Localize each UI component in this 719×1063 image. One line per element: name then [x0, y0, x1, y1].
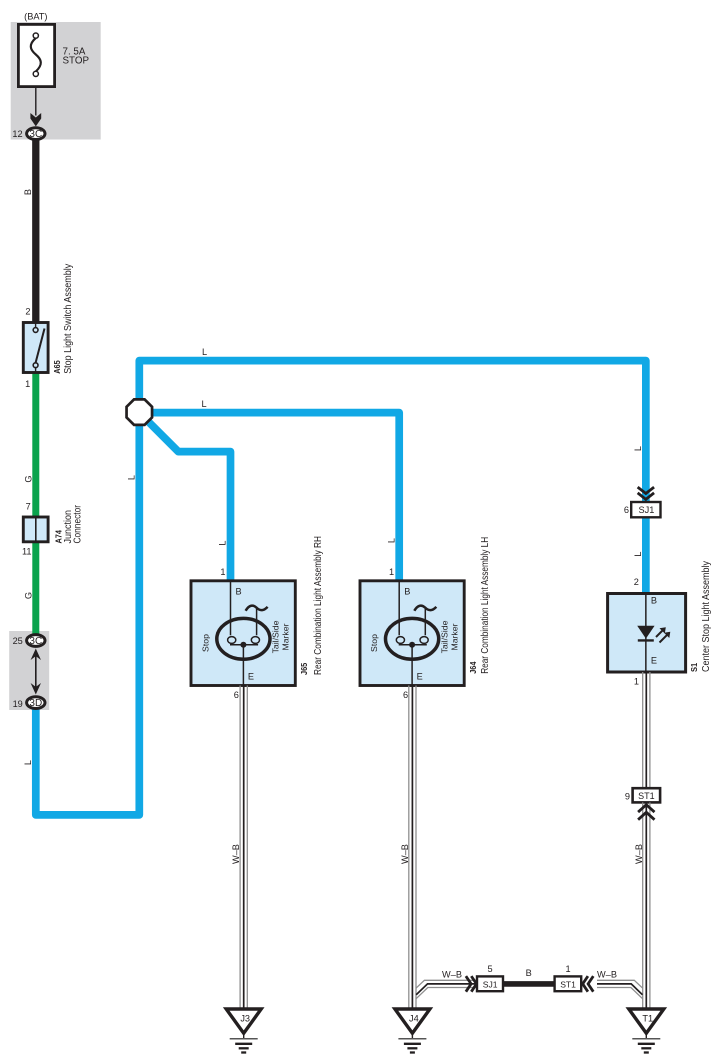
- svg-text:25: 25: [13, 636, 23, 646]
- svg-text:1: 1: [389, 567, 394, 577]
- svg-text:7: 7: [26, 502, 31, 512]
- svg-text:E: E: [651, 656, 657, 666]
- svg-text:B: B: [23, 189, 33, 195]
- svg-text:W–B: W–B: [597, 970, 617, 980]
- svg-text:Stop Light Switch Assembly: Stop Light Switch Assembly: [63, 264, 74, 374]
- svg-text:B: B: [526, 968, 532, 978]
- svg-text:Marker: Marker: [449, 623, 459, 650]
- svg-text:Rear Combination Light Assembl: Rear Combination Light Assembly LH: [480, 537, 491, 674]
- svg-text:19: 19: [13, 699, 23, 709]
- svg-text:ST1: ST1: [560, 979, 576, 989]
- svg-text:W–B: W–B: [400, 844, 410, 864]
- svg-text:E: E: [248, 672, 254, 682]
- svg-text:A74: A74: [54, 530, 64, 544]
- svg-text:T1: T1: [642, 1014, 653, 1024]
- svg-text:L: L: [23, 760, 33, 765]
- svg-text:B: B: [404, 587, 410, 597]
- svg-text:S1: S1: [689, 662, 699, 672]
- svg-text:J3: J3: [240, 1014, 250, 1024]
- svg-text:(BAT): (BAT): [24, 11, 47, 21]
- svg-text:1: 1: [220, 567, 225, 577]
- svg-text:1: 1: [634, 677, 639, 687]
- svg-text:Tail/Side: Tail/Side: [439, 620, 449, 653]
- svg-text:6: 6: [403, 690, 408, 700]
- svg-text:L: L: [633, 446, 643, 451]
- svg-text:B: B: [651, 596, 657, 606]
- svg-text:2: 2: [25, 307, 30, 317]
- svg-text:A65: A65: [52, 360, 62, 374]
- svg-text:L: L: [386, 538, 396, 543]
- svg-text:SJ1: SJ1: [638, 505, 654, 515]
- svg-text:STOP: STOP: [63, 56, 90, 67]
- svg-text:Center Stop Light Assembly: Center Stop Light Assembly: [701, 561, 712, 672]
- svg-text:J64: J64: [468, 661, 478, 673]
- svg-text:L: L: [127, 475, 137, 480]
- svg-text:3D: 3D: [29, 698, 42, 709]
- svg-text:9: 9: [625, 791, 630, 801]
- svg-text:3C: 3C: [29, 636, 42, 647]
- svg-text:3C: 3C: [29, 129, 42, 140]
- svg-text:J65: J65: [299, 662, 309, 675]
- svg-text:6: 6: [234, 690, 239, 700]
- svg-text:5: 5: [487, 964, 492, 974]
- svg-text:L: L: [633, 551, 643, 556]
- svg-text:J4: J4: [409, 1014, 419, 1024]
- svg-text:SJ1: SJ1: [483, 979, 498, 989]
- svg-text:6: 6: [624, 505, 629, 515]
- svg-text:E: E: [417, 672, 423, 682]
- svg-text:2: 2: [634, 577, 639, 587]
- svg-text:Stop: Stop: [200, 634, 210, 652]
- svg-text:L: L: [201, 399, 206, 409]
- svg-text:B: B: [236, 587, 242, 597]
- svg-text:Rear Combination Light Assembl: Rear Combination Light Assembly RH: [313, 536, 324, 675]
- svg-text:L: L: [218, 540, 228, 545]
- svg-text:G: G: [24, 475, 34, 482]
- svg-text:ST1: ST1: [638, 791, 655, 801]
- svg-text:1: 1: [25, 379, 30, 389]
- svg-text:1: 1: [565, 964, 570, 974]
- svg-text:G: G: [24, 592, 34, 599]
- svg-text:Connector: Connector: [72, 504, 83, 543]
- svg-text:11: 11: [22, 547, 32, 557]
- svg-text:W–B: W–B: [231, 844, 241, 864]
- svg-text:Marker: Marker: [281, 623, 291, 650]
- svg-text:W–B: W–B: [442, 970, 462, 980]
- svg-text:Tail/Side: Tail/Side: [271, 620, 281, 653]
- svg-text:L: L: [202, 347, 207, 357]
- svg-text:Stop: Stop: [369, 634, 379, 652]
- svg-text:12: 12: [12, 129, 22, 139]
- svg-text:W–B: W–B: [634, 844, 644, 864]
